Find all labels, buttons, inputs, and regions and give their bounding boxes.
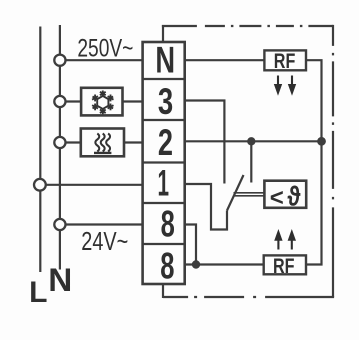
svg-text:N: N	[48, 262, 72, 298]
svg-text:8: 8	[160, 245, 174, 286]
svg-text:8: 8	[161, 203, 175, 244]
svg-text:<: <	[270, 185, 284, 212]
svg-text:RF: RF	[273, 254, 295, 278]
svg-text:N: N	[155, 39, 175, 80]
svg-text:2: 2	[158, 122, 173, 163]
svg-text:250V~: 250V~	[77, 35, 133, 63]
svg-text:ϑ: ϑ	[287, 181, 301, 212]
svg-text:3: 3	[158, 81, 173, 122]
svg-text:RF: RF	[274, 49, 296, 73]
svg-text:1: 1	[158, 163, 170, 204]
svg-text:L: L	[29, 276, 47, 309]
svg-text:24V~: 24V~	[81, 228, 128, 256]
